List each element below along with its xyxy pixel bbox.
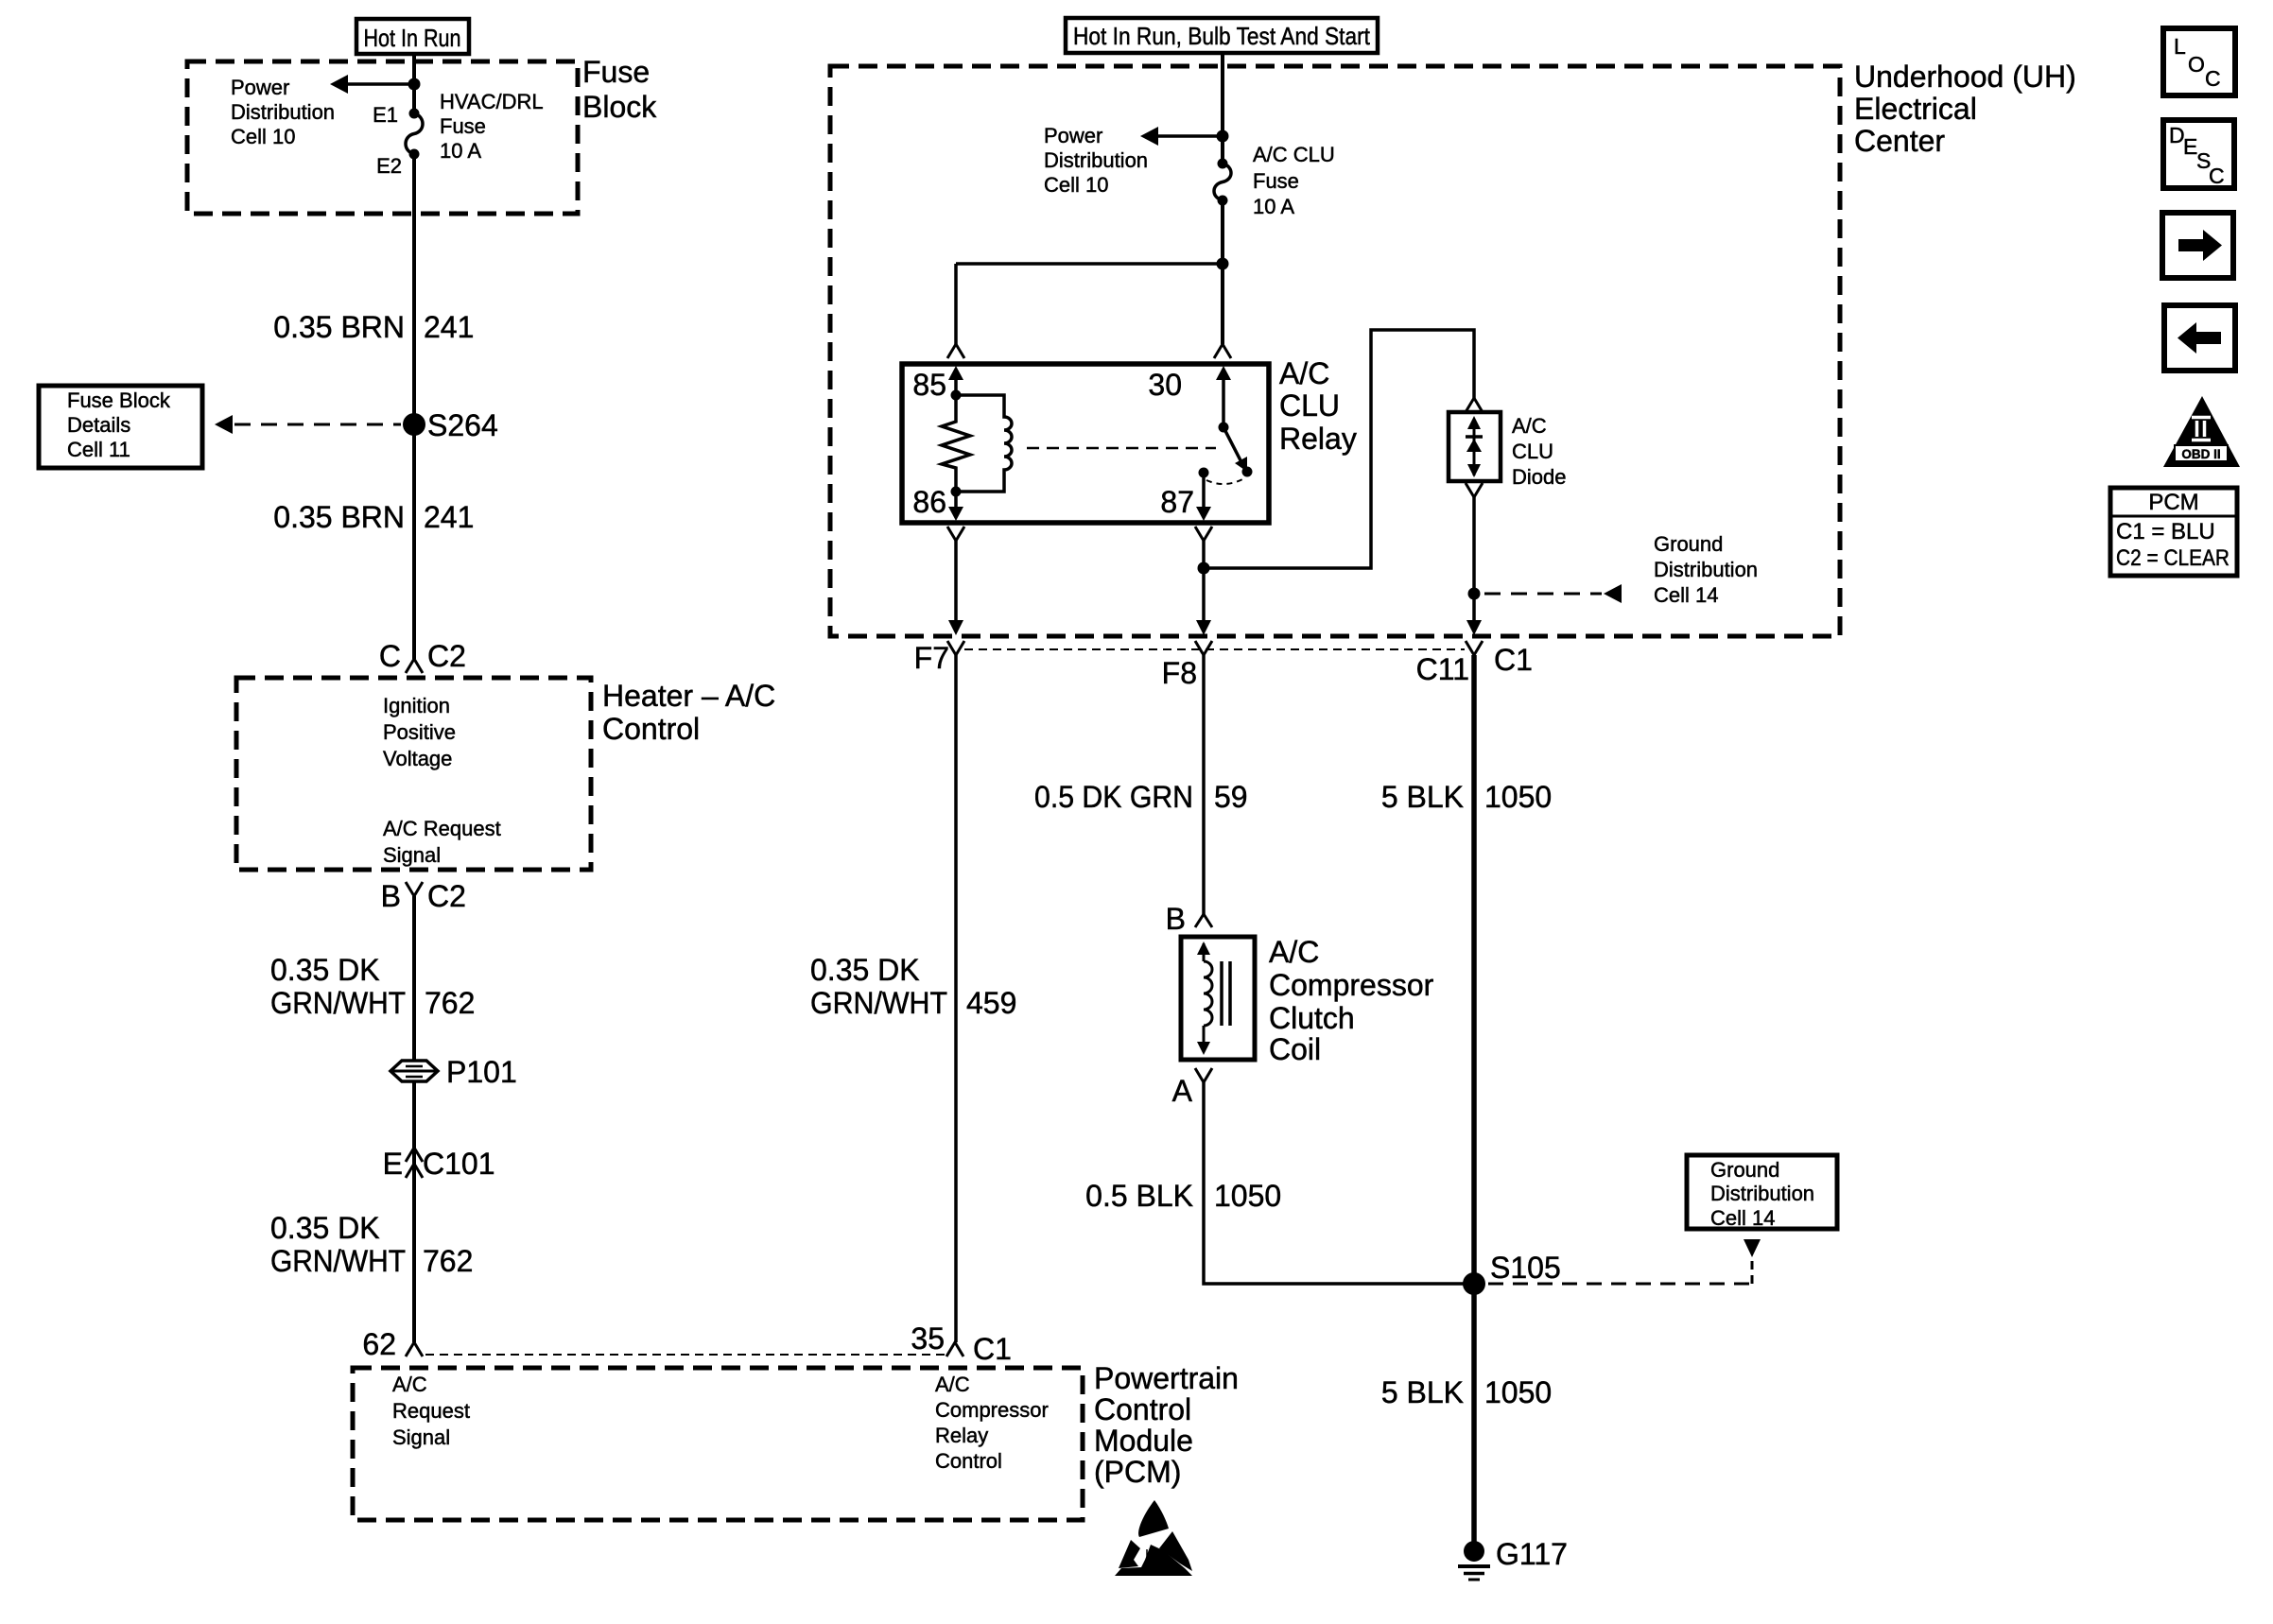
svg-text:C2: C2 bbox=[427, 879, 466, 913]
svg-text:PCM: PCM bbox=[2148, 490, 2198, 515]
A/C compressor clutch coil bbox=[1181, 935, 1434, 1066]
svg-text:Power: Power bbox=[231, 76, 289, 99]
wire label 5 BLK 1050 (second) bbox=[1381, 1375, 1552, 1409]
relay pin 86 arrow bbox=[912, 485, 963, 521]
relay pin 87 arrow bbox=[1160, 473, 1211, 521]
svg-text:Compressor: Compressor bbox=[935, 1398, 1049, 1422]
svg-text:Fuse: Fuse bbox=[582, 55, 650, 89]
legend icon OBD II bbox=[2163, 396, 2240, 467]
svg-text:5 BLK: 5 BLK bbox=[1381, 780, 1464, 814]
relay coil winding bbox=[956, 395, 1012, 492]
dashed reference arrow to Fuse Block Details bbox=[215, 415, 401, 434]
svg-text:762: 762 bbox=[423, 1244, 473, 1278]
connector B at clutch coil bbox=[1166, 902, 1212, 936]
svg-text:Fuse Block: Fuse Block bbox=[67, 389, 171, 412]
connector C of C2 at Heater-A/C Control bbox=[379, 639, 466, 673]
label Powertrain Control Module (PCM) bbox=[1094, 1361, 1239, 1489]
svg-text:C2 = CLEAR: C2 = CLEAR bbox=[2116, 545, 2230, 571]
svg-text:Control: Control bbox=[602, 712, 700, 746]
svg-text:Block: Block bbox=[582, 90, 657, 124]
wire label 0.35 DK GRN/WHT 459 bbox=[810, 953, 1016, 1020]
svg-text:Fuse: Fuse bbox=[1253, 169, 1299, 193]
svg-text:0.35 BRN: 0.35 BRN bbox=[273, 310, 405, 344]
wire F7 to PCM pin 35 bbox=[954, 655, 958, 1342]
junction node on diode wire bbox=[1468, 588, 1481, 600]
svg-text:0.35 DK: 0.35 DK bbox=[810, 953, 920, 987]
svg-text:Signal: Signal bbox=[392, 1425, 450, 1449]
connector A at clutch coil bbox=[1172, 1068, 1212, 1108]
wire F8 to connector B bbox=[1202, 655, 1206, 914]
wire label 0.35 BRN 241 (second) bbox=[273, 500, 474, 534]
splice S264 bbox=[403, 408, 498, 442]
svg-text:Control: Control bbox=[1094, 1392, 1191, 1426]
svg-text:241: 241 bbox=[424, 310, 474, 344]
svg-text:A/C CLU: A/C CLU bbox=[1253, 143, 1335, 166]
inline connector E C101 bbox=[383, 1147, 495, 1181]
connector C11 C1 bbox=[1416, 641, 1533, 686]
PCM box (dashed) bbox=[353, 1368, 1083, 1520]
header box Hot In Run, Bulb Test And Start bbox=[1066, 18, 1378, 53]
svg-text:C1: C1 bbox=[1494, 643, 1533, 677]
legend icon arrow left bbox=[2164, 305, 2235, 371]
svg-text:Clutch: Clutch bbox=[1269, 1001, 1355, 1035]
arrow to Power Distribution Cell 10 (UH) bbox=[1140, 127, 1223, 146]
svg-text:35: 35 bbox=[911, 1322, 945, 1356]
Heater-A/C Control box (dashed) bbox=[236, 678, 591, 870]
svg-text:Fuse: Fuse bbox=[440, 114, 486, 138]
svg-text:C1: C1 bbox=[973, 1332, 1012, 1366]
relay coil resistor bbox=[942, 390, 970, 497]
svg-text:0.35 BRN: 0.35 BRN bbox=[273, 500, 405, 534]
svg-text:Distribution: Distribution bbox=[1710, 1182, 1814, 1205]
wire A to splice S105 bbox=[1204, 1082, 1467, 1284]
svg-text:Relay: Relay bbox=[935, 1424, 988, 1447]
svg-text:(PCM): (PCM) bbox=[1094, 1455, 1181, 1489]
grommet P101 bbox=[390, 1055, 517, 1089]
arrow to Power Distribution Cell 10 bbox=[330, 75, 414, 94]
connector B of C2 bbox=[381, 879, 466, 913]
svg-text:85: 85 bbox=[912, 368, 946, 402]
svg-text:Hot In Run: Hot In Run bbox=[364, 24, 461, 52]
label Heater - A/C Control bbox=[602, 679, 775, 746]
svg-text:Distribution: Distribution bbox=[1654, 558, 1758, 581]
svg-text:Powertrain: Powertrain bbox=[1094, 1361, 1239, 1395]
svg-text:GRN/WHT: GRN/WHT bbox=[270, 986, 406, 1020]
label Fuse Block bbox=[582, 55, 657, 124]
svg-text:Request: Request bbox=[392, 1399, 470, 1423]
wire label 0.35 DK GRN/WHT 762 (second) bbox=[270, 1211, 473, 1278]
connector F7 bbox=[914, 641, 964, 675]
wire from fuse to relay pin 30 bbox=[1221, 200, 1224, 344]
svg-text:762: 762 bbox=[425, 986, 475, 1020]
wire label 5 BLK 1050 bbox=[1381, 780, 1552, 814]
svg-text:59: 59 bbox=[1214, 780, 1248, 814]
pin label Ignition Positive Voltage bbox=[383, 694, 456, 770]
reference box Fuse Block Details Cell 11 bbox=[39, 386, 202, 468]
svg-text:A: A bbox=[1172, 1074, 1193, 1108]
svg-text:1050: 1050 bbox=[1484, 1375, 1552, 1409]
legend icon arrow right bbox=[2162, 213, 2233, 278]
junction node on wire bbox=[408, 78, 421, 91]
svg-text:Cell 11: Cell 11 bbox=[67, 438, 130, 461]
svg-text:GRN/WHT: GRN/WHT bbox=[270, 1244, 406, 1278]
fuse HVAC/DRL 10A with terminals E1 E2 bbox=[373, 90, 544, 178]
label Underhood (UH) Electrical Center bbox=[1854, 60, 2076, 158]
svg-text:0.5 BLK: 0.5 BLK bbox=[1085, 1179, 1193, 1213]
label A/C CLU Relay bbox=[1279, 356, 1357, 456]
reference box Ground Distribution Cell 14 bbox=[1687, 1155, 1837, 1230]
svg-text:G117: G117 bbox=[1496, 1537, 1568, 1571]
svg-text:Module: Module bbox=[1094, 1424, 1193, 1458]
svg-text:459: 459 bbox=[966, 986, 1016, 1020]
relay pin 85 arrow bbox=[912, 366, 963, 402]
branch wire to relay pin 85 bbox=[956, 264, 1223, 344]
svg-text:Compressor: Compressor bbox=[1269, 968, 1434, 1002]
svg-text:Heater – A/C: Heater – A/C bbox=[602, 679, 775, 713]
svg-text:HVAC/DRL: HVAC/DRL bbox=[440, 90, 544, 113]
junction node at branch bbox=[1217, 258, 1229, 270]
svg-text:A/C Request: A/C Request bbox=[383, 817, 501, 840]
svg-text:0.35 DK: 0.35 DK bbox=[270, 953, 380, 987]
svg-text:10 A: 10 A bbox=[440, 139, 481, 163]
svg-text:Cell 14: Cell 14 bbox=[1710, 1206, 1775, 1230]
svg-text:C11: C11 bbox=[1416, 652, 1469, 686]
wire label 0.5 DK GRN 59 bbox=[1034, 780, 1248, 814]
svg-text:Hot In Run, Bulb Test And Star: Hot In Run, Bulb Test And Start bbox=[1073, 22, 1371, 50]
svg-text:GRN/WHT: GRN/WHT bbox=[810, 986, 947, 1020]
svg-text:CLU: CLU bbox=[1279, 389, 1340, 423]
svg-text:S264: S264 bbox=[427, 408, 498, 442]
ground G117 bbox=[1458, 1537, 1568, 1580]
svg-text:A/C: A/C bbox=[935, 1373, 970, 1396]
svg-text:A/C: A/C bbox=[1512, 414, 1547, 438]
relay switch bbox=[1199, 423, 1253, 485]
svg-text:Underhood (UH): Underhood (UH) bbox=[1854, 60, 2076, 94]
svg-text:Cell 10: Cell 10 bbox=[231, 125, 295, 148]
relay box bbox=[902, 364, 1269, 523]
svg-text:Control: Control bbox=[935, 1449, 1002, 1473]
text Power Distribution Cell 10 bbox=[231, 76, 335, 148]
svg-text:C2: C2 bbox=[427, 639, 466, 673]
loop wire from 87 junction to diode bbox=[1204, 330, 1474, 568]
Underhood Electrical Center box (dashed) bbox=[830, 66, 1840, 636]
wire relay 87 to F8 bbox=[1195, 527, 1212, 635]
legend icon DESC bbox=[2163, 120, 2234, 188]
pin label A/C Request Signal (PCM) bbox=[392, 1373, 470, 1449]
svg-text:Distribution: Distribution bbox=[231, 100, 335, 124]
svg-text:Voltage: Voltage bbox=[383, 747, 452, 770]
svg-text:241: 241 bbox=[424, 500, 474, 534]
svg-text:Relay: Relay bbox=[1279, 422, 1357, 456]
svg-text:Cell 14: Cell 14 bbox=[1654, 583, 1718, 607]
svg-text:Electrical: Electrical bbox=[1854, 92, 1977, 126]
svg-text:L: L bbox=[2174, 34, 2186, 59]
svg-text:E: E bbox=[383, 1147, 403, 1181]
svg-text:E2: E2 bbox=[376, 154, 402, 178]
relay actuation dashed line bbox=[1027, 447, 1216, 450]
connector fork at relay pin 30 bbox=[1214, 344, 1231, 358]
connector fork above diode bbox=[1466, 398, 1483, 412]
svg-text:30: 30 bbox=[1148, 368, 1182, 402]
svg-text:87: 87 bbox=[1160, 485, 1194, 519]
legend PCM connector colors bbox=[2110, 488, 2237, 576]
wire label 0.5 BLK 1050 bbox=[1085, 1179, 1281, 1213]
svg-text:A/C: A/C bbox=[1269, 935, 1319, 969]
dashed reference to Ground Distribution Cell 14 box bbox=[1488, 1239, 1761, 1284]
text Power Distribution Cell 10 (UH) bbox=[1044, 124, 1148, 197]
svg-text:Ground: Ground bbox=[1654, 532, 1723, 556]
svg-text:OBD II: OBD II bbox=[2181, 447, 2220, 461]
svg-text:Diode: Diode bbox=[1512, 465, 1566, 489]
svg-text:C1 = BLU: C1 = BLU bbox=[2116, 519, 2215, 544]
svg-text:10 A: 10 A bbox=[1253, 195, 1294, 218]
relay pin 30 arrow bbox=[1148, 366, 1231, 427]
pin 62 connector bbox=[362, 1327, 423, 1361]
svg-text:Positive: Positive bbox=[383, 720, 456, 744]
svg-text:C: C bbox=[2205, 66, 2221, 91]
wire from Hot In Run to fuse E1 bbox=[412, 54, 416, 113]
wire from header into UH box to fuse bbox=[1221, 53, 1224, 164]
dashed reference arrow Ground Distribution Cell 14 (UH) bbox=[1484, 532, 1758, 607]
junction node on 87 wire bbox=[1198, 562, 1210, 575]
svg-text:O: O bbox=[2188, 52, 2205, 77]
pin 35 connector C1 bbox=[911, 1322, 1012, 1366]
wire C1 to G117 (5 BLK) bbox=[1471, 655, 1477, 1551]
wire 762 from B to pin 62 bbox=[412, 896, 416, 1342]
svg-text:C: C bbox=[379, 639, 401, 673]
svg-text:C101: C101 bbox=[423, 1147, 495, 1181]
svg-text:Power: Power bbox=[1044, 124, 1102, 147]
svg-text:B: B bbox=[1166, 902, 1186, 936]
junction node bbox=[1217, 130, 1229, 143]
svg-text:P101: P101 bbox=[446, 1055, 517, 1089]
svg-text:F8: F8 bbox=[1162, 656, 1197, 690]
fuse block box (dashed) bbox=[187, 61, 578, 214]
svg-text:Cell 10: Cell 10 bbox=[1044, 173, 1108, 197]
wire label 0.35 BRN 241 bbox=[273, 310, 474, 344]
ESD sensitive device symbol bbox=[1115, 1500, 1192, 1576]
wire 241 from fuse to connector C bbox=[412, 154, 416, 659]
svg-text:1050: 1050 bbox=[1484, 780, 1552, 814]
svg-text:Center: Center bbox=[1854, 124, 1945, 158]
connector F8 bbox=[1162, 641, 1212, 690]
svg-text:Ground: Ground bbox=[1710, 1158, 1779, 1182]
svg-text:Signal: Signal bbox=[383, 843, 441, 867]
pin label A/C Request Signal bbox=[383, 817, 501, 867]
wire relay 86 to F7 bbox=[947, 527, 964, 635]
connector fork at relay pin 85 bbox=[947, 344, 964, 358]
svg-text:A/C: A/C bbox=[1279, 356, 1329, 390]
svg-text:C: C bbox=[2209, 164, 2225, 188]
pin label A/C Compressor Relay Control bbox=[935, 1373, 1049, 1473]
svg-text:B: B bbox=[381, 879, 401, 913]
diode A/C CLU bbox=[1449, 412, 1566, 489]
svg-text:0.35 DK: 0.35 DK bbox=[270, 1211, 380, 1245]
fuse A/C CLU 10A bbox=[1214, 143, 1335, 218]
svg-text:F7: F7 bbox=[914, 641, 949, 675]
svg-text:S105: S105 bbox=[1490, 1251, 1561, 1285]
wire diode to C11 bbox=[1466, 483, 1483, 635]
svg-text:1050: 1050 bbox=[1214, 1179, 1281, 1213]
splice S105 bbox=[1463, 1251, 1561, 1295]
svg-text:86: 86 bbox=[912, 485, 946, 519]
svg-text:Distribution: Distribution bbox=[1044, 148, 1148, 172]
header box Hot In Run bbox=[356, 19, 469, 54]
wire label 0.35 DK GRN/WHT 762 bbox=[270, 953, 475, 1020]
dashed pin line 62 to 35 bbox=[425, 1354, 946, 1356]
svg-text:CLU: CLU bbox=[1512, 440, 1553, 463]
svg-text:Ignition: Ignition bbox=[383, 694, 450, 717]
svg-text:Coil: Coil bbox=[1269, 1032, 1321, 1066]
svg-text:5 BLK: 5 BLK bbox=[1381, 1375, 1464, 1409]
legend icon LOC bbox=[2163, 28, 2235, 95]
thin dashed connector line F7 to C1 bbox=[964, 648, 1465, 650]
svg-text:0.5 DK GRN: 0.5 DK GRN bbox=[1034, 780, 1193, 814]
svg-text:A/C: A/C bbox=[392, 1373, 427, 1396]
svg-text:62: 62 bbox=[362, 1327, 396, 1361]
svg-text:E1: E1 bbox=[373, 103, 398, 127]
svg-text:Details: Details bbox=[67, 413, 130, 437]
